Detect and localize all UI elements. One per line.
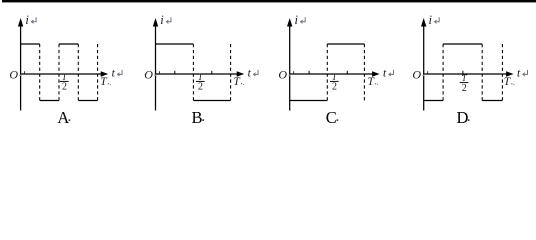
svg-text:T: T: [367, 76, 375, 88]
svg-text:t: t: [517, 68, 521, 80]
svg-text:B: B: [191, 108, 202, 126]
svg-text:A: A: [57, 108, 69, 126]
svg-text:T: T: [233, 76, 241, 88]
svg-text:2: 2: [198, 82, 203, 93]
svg-text:i: i: [160, 13, 164, 27]
svg-text:2: 2: [462, 83, 467, 94]
svg-text:O: O: [9, 68, 18, 82]
svg-text:T: T: [504, 76, 512, 88]
svg-text:T: T: [462, 73, 468, 83]
svg-text:t: t: [248, 68, 252, 80]
svg-text:i: i: [429, 13, 433, 27]
svg-text:i: i: [295, 13, 299, 27]
svg-text:2: 2: [332, 82, 337, 93]
svg-text:i: i: [25, 13, 29, 27]
svg-text:O: O: [144, 68, 153, 82]
svg-text:2: 2: [62, 82, 67, 93]
svg-text:t: t: [112, 68, 116, 80]
svg-text:C: C: [326, 108, 337, 126]
svg-text:t: t: [383, 68, 387, 80]
svg-text:O: O: [278, 68, 287, 82]
svg-text:T: T: [100, 76, 108, 88]
svg-text:D: D: [457, 108, 469, 126]
svg-text:O: O: [412, 68, 421, 82]
